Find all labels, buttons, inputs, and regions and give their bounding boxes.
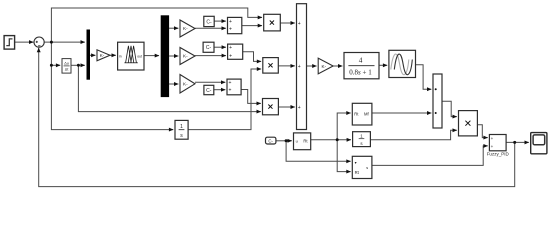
svg-text:+: +: [298, 64, 301, 70]
svg-text:in: in: [119, 54, 122, 58]
svg-text:K-: K-: [183, 54, 188, 59]
svg-text:C-: C-: [268, 139, 273, 144]
svg-text:▾: ▾: [355, 161, 357, 165]
svg-text:C-: C-: [206, 88, 212, 94]
svg-text:+: +: [298, 21, 301, 27]
svg-text:K-: K-: [100, 53, 105, 58]
svg-text:out: out: [137, 54, 142, 58]
svg-text:+: +: [298, 105, 301, 111]
svg-text:s: s: [366, 166, 368, 170]
svg-text:0.8s + 1: 0.8s + 1: [349, 68, 372, 76]
svg-text:u: u: [296, 139, 298, 144]
svg-text:C-: C-: [206, 19, 212, 25]
svg-text:+: +: [491, 136, 494, 141]
svg-text:C-: C-: [206, 45, 212, 51]
svg-text:4: 4: [359, 56, 363, 64]
svg-text:1: 1: [180, 124, 183, 130]
svg-text:K-: K-: [322, 64, 327, 69]
svg-text:+: +: [229, 88, 232, 94]
svg-text:Δu: Δu: [64, 61, 69, 65]
svg-text:Fuzzy_PID: Fuzzy_PID: [487, 151, 510, 156]
svg-text:+: +: [229, 53, 232, 59]
svg-text:+: +: [229, 45, 232, 51]
svg-text:+: +: [229, 80, 232, 86]
svg-text:K-: K-: [183, 82, 188, 87]
svg-text:+: +: [229, 19, 232, 25]
svg-text:K-: K-: [183, 26, 188, 31]
svg-text:+: +: [229, 26, 232, 32]
svg-text:+: +: [491, 144, 494, 149]
